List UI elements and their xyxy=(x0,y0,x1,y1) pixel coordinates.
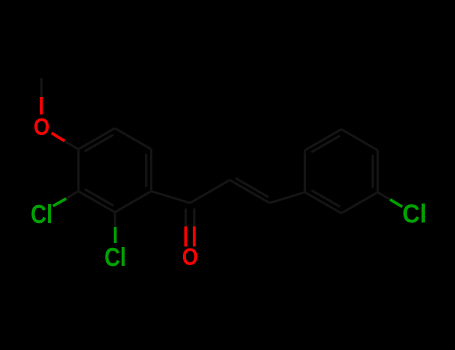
chlorine on C3 xyxy=(53,191,78,206)
wire O to methyl red half xyxy=(40,97,43,115)
wire ring2 inner double bond right edge xyxy=(372,155,374,188)
wire ring2 edge C1'-TL2 xyxy=(304,150,306,192)
wire C=O double bond left line dark half xyxy=(185,209,187,227)
node Cl label on C3 xyxy=(31,200,53,229)
svg-text:O: O xyxy=(182,244,198,271)
carbonyl group C=O xyxy=(151,191,194,246)
node O methoxy oxygen label xyxy=(33,114,49,141)
wire ring2 edge TL2-T2 xyxy=(305,129,341,150)
wire ring2 edge B2-C1' xyxy=(305,192,341,213)
benzene ring 1 (2,3-dichloro-4-methoxyphenyl) xyxy=(78,128,151,212)
wire ring1 edge C1-C2 xyxy=(115,191,151,212)
svg-text:Cl: Cl xyxy=(31,200,53,229)
wire C3 to Cl dark half xyxy=(66,191,78,198)
wire O to C4 dark half xyxy=(65,141,79,149)
wire ring2 inner double bond bottom-left edge xyxy=(311,190,340,207)
chlorine on C4' xyxy=(378,192,403,207)
node Cl label on C2 xyxy=(104,243,126,272)
wire ring2 edge T2-TR2 xyxy=(341,129,377,150)
wire ring1 inner double bond top-left edge xyxy=(85,135,114,152)
svg-text:Cl: Cl xyxy=(402,200,426,229)
wire C4' to Cl dark half xyxy=(378,192,390,199)
wire C4' to Cl green half xyxy=(390,200,402,207)
wire ring2 inner double bond top-left edge xyxy=(311,136,340,153)
wire ring1 inner double bond bottom-left edge xyxy=(85,189,114,206)
node O carbonyl oxygen label xyxy=(182,244,198,271)
wire C3 to Cl green half xyxy=(53,199,66,206)
propenone vinyl chain xyxy=(190,178,305,203)
wire ring1 edge C4-T1 xyxy=(78,128,114,149)
wire methyl CH3 to O dark half xyxy=(40,78,42,97)
wire carbonyl C to C-alpha xyxy=(190,180,230,203)
wire C-alpha to C-beta main line of C=C xyxy=(230,180,270,203)
wire C=O double bond left line red half xyxy=(184,226,187,246)
wire C1 to carbonyl C xyxy=(151,191,190,203)
wire ring1 edge TR1-C1 xyxy=(150,149,152,191)
wire ring1 edge C2-C3 xyxy=(78,191,114,212)
wire ring1 inner double bond right edge xyxy=(145,154,147,187)
wire C2 to Cl dark half xyxy=(114,212,117,227)
node Cl label on C4' xyxy=(402,200,426,229)
wire ring1 edge C3-C4 xyxy=(77,149,79,191)
wire C=C second parallel line xyxy=(236,178,269,197)
wire ring1 edge T1-TR1 xyxy=(115,128,151,149)
wire C=O double bond right line dark half xyxy=(193,209,195,227)
wire C=O double bond right line red half xyxy=(193,226,196,246)
wire C2 to Cl green half xyxy=(114,227,117,243)
methoxy group xyxy=(41,78,78,149)
wire ring2 edge TR2-C4' xyxy=(377,150,379,192)
chlorine on C2 xyxy=(114,212,117,243)
wire C-beta to ring2 C1' xyxy=(270,192,305,203)
wire ring2 edge C4'-B2 xyxy=(341,192,377,213)
wire O to C4 red half xyxy=(52,133,65,141)
benzene ring 2 (4-chlorophenyl) xyxy=(305,129,378,213)
svg-text:Cl: Cl xyxy=(104,243,126,272)
svg-text:O: O xyxy=(33,114,49,141)
